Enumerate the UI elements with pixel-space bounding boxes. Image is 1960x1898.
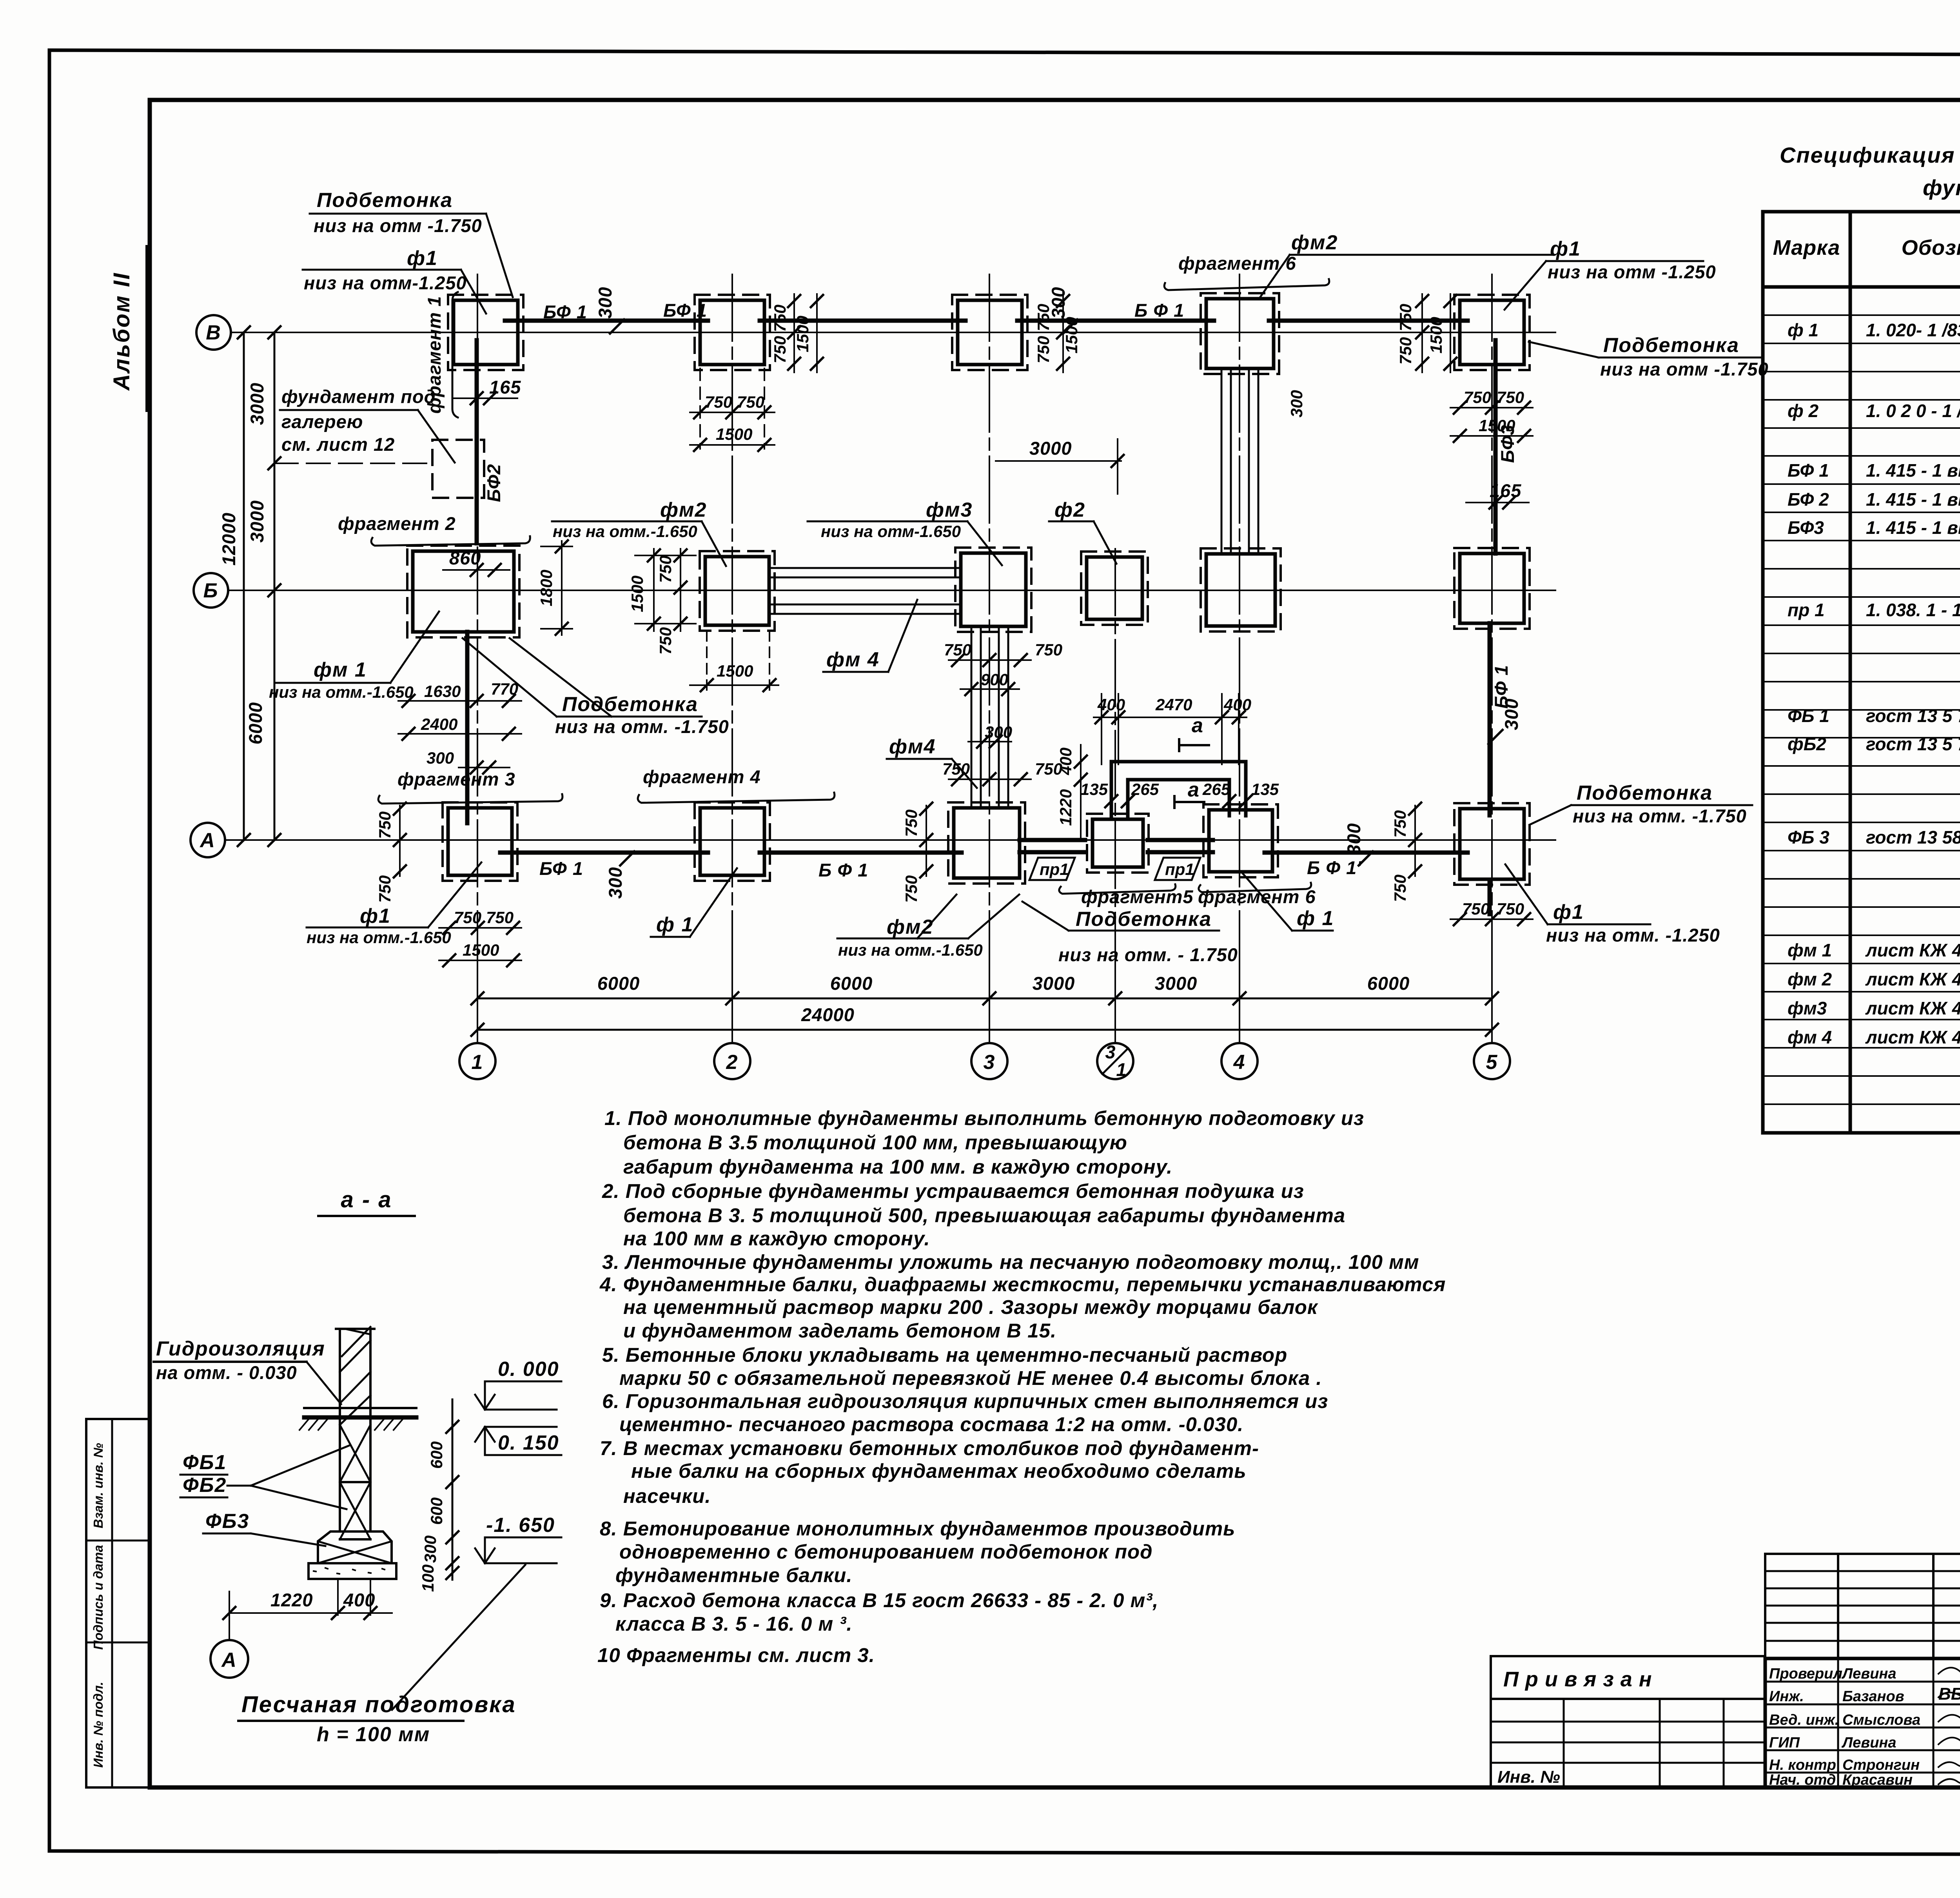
- svg-text:750: 750: [1497, 900, 1524, 918]
- svg-text:пр1: пр1: [1040, 860, 1069, 878]
- svg-text:ф 2: ф 2: [1788, 401, 1818, 421]
- svg-text:750: 750: [1464, 388, 1491, 406]
- fragment 1 bracket and label: [452, 292, 458, 417]
- foundation FM2 axis 4/V: [1201, 293, 1279, 374]
- vertical axis column 3/1: [1114, 549, 1116, 1042]
- dims col3 ladder 750 750 upper: [949, 659, 1031, 661]
- svg-text:Обозначение: Обозначение: [1902, 236, 1960, 259]
- dims row A col1 below: [439, 927, 521, 929]
- svg-text:860: 860: [449, 548, 481, 568]
- svg-text:фм3: фм3: [926, 499, 973, 521]
- svg-text:750: 750: [376, 875, 394, 903]
- svg-text:фм 4: фм 4: [1788, 1027, 1832, 1047]
- dims col2 row V right rotated: [793, 294, 795, 372]
- axis line B horizontal: [228, 590, 1555, 591]
- svg-text:1. 415 - 1 вып. 1: 1. 415 - 1 вып. 1: [1866, 517, 1960, 538]
- dims col2 row V below: [699, 368, 701, 449]
- svg-text:БФ3: БФ3: [1497, 425, 1518, 463]
- svg-text:1500: 1500: [716, 425, 752, 443]
- svg-text:Спецификация сборных и моно: Спецификация сборных и монолитных фундам…: [1780, 143, 1960, 167]
- svg-text:1500: 1500: [793, 316, 812, 352]
- svg-text:400: 400: [343, 1590, 375, 1610]
- svg-text:750: 750: [1396, 304, 1415, 331]
- svg-text:100: 100: [419, 1564, 437, 1592]
- svg-text:5: 5: [1486, 1051, 1498, 1074]
- foundation FM2 axis 2/B: [700, 551, 775, 631]
- svg-text:БФ 1: БФ 1: [1788, 460, 1829, 481]
- foundation FM3 axis 3/B: [955, 548, 1031, 632]
- svg-text:ф 1: ф 1: [1788, 320, 1818, 340]
- dims col5 row V left rotated: [1421, 294, 1423, 372]
- svg-text:насечки.: насечки.: [623, 1485, 711, 1507]
- fragment 5 label: [1059, 884, 1176, 894]
- svg-text:на цементный раствор марки: на цементный раствор марки 200 . Зазоры …: [623, 1296, 1318, 1318]
- section floor slab lines: [304, 1407, 416, 1409]
- svg-text:750: 750: [1396, 337, 1415, 365]
- svg-text:ВБаз: ВБаз: [1938, 1684, 1960, 1704]
- svg-text:6. Горизонтальная гидроизоля: 6. Горизонтальная гидроизоляция кирпичны…: [602, 1390, 1328, 1412]
- svg-text:бетона В 3.5 толщиной 100 мм: бетона В 3.5 толщиной 100 мм, превышающу…: [623, 1131, 1127, 1154]
- svg-text:низ на отм.-1.650: низ на отм.-1.650: [838, 941, 983, 959]
- svg-text:750: 750: [454, 908, 481, 927]
- svg-text:а - а: а - а: [341, 1187, 392, 1212]
- svg-text:ф1: ф1: [1553, 901, 1584, 924]
- svg-text:БФ 1: БФ 1: [543, 301, 587, 322]
- svg-text:В: В: [206, 321, 221, 344]
- svg-text:Песчаная подготовка: Песчаная подготовка: [241, 1692, 516, 1717]
- dim 1500 below col2 row B: [690, 684, 779, 686]
- svg-text:6000: 6000: [245, 702, 266, 745]
- svg-text:Красавин: Красавин: [1842, 1772, 1913, 1788]
- svg-text:фм 4: фм 4: [826, 648, 880, 671]
- svg-text:1500: 1500: [717, 662, 753, 680]
- svg-text:см. лист 12: см. лист 12: [281, 434, 395, 455]
- svg-text:1220: 1220: [1056, 789, 1075, 826]
- vertical axis column 2: [731, 274, 733, 1042]
- dims row A col4-5 rotated 750s: [1414, 806, 1416, 876]
- svg-text:3000: 3000: [247, 383, 267, 425]
- svg-text:Левина: Левина: [1841, 1735, 1896, 1751]
- svg-text:750: 750: [902, 875, 920, 903]
- svg-text:БФ 2: БФ 2: [1788, 489, 1829, 510]
- section wall axis below: [337, 1579, 339, 1615]
- svg-text:Альбом II: Альбом II: [109, 272, 134, 391]
- dims col3 row V right rotated: [1062, 292, 1064, 372]
- svg-text:2470: 2470: [1155, 695, 1192, 714]
- svg-text:ФБ1: ФБ1: [183, 1451, 227, 1474]
- section FB3 slab trapezoid: [318, 1531, 392, 1563]
- svg-text:1800: 1800: [537, 570, 555, 606]
- svg-text:3000: 3000: [1029, 438, 1072, 459]
- svg-text:Нач. отд: Нач. отд: [1769, 1772, 1836, 1788]
- svg-text:Взам. инв. №: Взам. инв. №: [91, 1443, 105, 1528]
- svg-text:ФБ 3: ФБ 3: [1788, 827, 1829, 847]
- svg-text:ГИП: ГИП: [1769, 1735, 1800, 1751]
- section bottom dims 1220 400: [229, 1612, 392, 1614]
- svg-text:Инв. №: Инв. №: [1497, 1767, 1560, 1787]
- dim 1800 rotated: [561, 541, 563, 635]
- svg-text:Б Ф 1: Б Ф 1: [1134, 300, 1184, 321]
- svg-text:гост 13 5 7 9 - 78: гост 13 5 7 9 - 78: [1866, 734, 1960, 754]
- svg-text:2. Под сборные фундаменты: 2. Под сборные фундаменты устраивается б…: [602, 1180, 1304, 1202]
- svg-text:низ на отм-1.250: низ на отм-1.250: [304, 272, 467, 293]
- title block small revision table: [1765, 1554, 1960, 1658]
- svg-text:12000: 12000: [218, 512, 239, 566]
- svg-text:400: 400: [1223, 695, 1251, 714]
- svg-text:пр 1: пр 1: [1788, 600, 1825, 620]
- svg-text:165: 165: [1490, 480, 1521, 501]
- svg-text:750: 750: [486, 908, 514, 927]
- svg-text:3: 3: [984, 1051, 996, 1074]
- svg-text:Стронгин: Стронгин: [1842, 1757, 1920, 1773]
- svg-text:750: 750: [376, 811, 394, 839]
- svg-text:1: 1: [1116, 1059, 1127, 1080]
- section elevation dim line: [419, 1399, 459, 1592]
- svg-text:9. Расход бетона класс: 9. Расход бетона класса В 15 гост 26633 …: [600, 1589, 1158, 1611]
- svg-text:0. 000: 0. 000: [498, 1358, 559, 1381]
- svg-text:750: 750: [771, 336, 789, 363]
- svg-text:Проверил: Проверил: [1769, 1666, 1842, 1682]
- svg-text:Б Ф 1: Б Ф 1: [818, 860, 868, 880]
- svg-text:гост 13 5 7 9 - 78: гост 13 5 7 9 - 78: [1866, 706, 1960, 726]
- section wall with hatching: [336, 1327, 374, 1425]
- bottom dim chain total 24000: [477, 1029, 1492, 1031]
- svg-text:фм3: фм3: [1788, 998, 1827, 1018]
- svg-text:1630: 1630: [424, 682, 461, 700]
- svg-text:750: 750: [1391, 875, 1409, 902]
- svg-text:класса В 3. 5 - 16. 0 м: класса В 3. 5 - 16. 0 м ³.: [615, 1613, 853, 1635]
- svg-text:1. 0 2 0 - 1 / 83. 1 - 1. 2. 0: 1. 0 2 0 - 1 / 83. 1 - 1. 2. 0. 0: [1866, 401, 1960, 421]
- svg-text:Инв. № подл.: Инв. № подл.: [91, 1682, 105, 1767]
- left margin attribute boxes: [86, 1419, 150, 1787]
- monolithic beam FM4 vertical axis 4 V-B: [1221, 368, 1223, 554]
- svg-text:фрагмент 4: фрагмент 4: [643, 766, 761, 787]
- grid circle B: [194, 573, 228, 608]
- svg-text:а: а: [1192, 714, 1204, 737]
- title block left privyazan table: [1491, 1656, 1765, 1787]
- lintel beams PR1 left pair: [1020, 838, 1085, 842]
- svg-text:1. 020- 1 /83. 1 - 1. 2. 0. 0: 1. 020- 1 /83. 1 - 1. 2. 0. 0: [1866, 320, 1960, 340]
- svg-text:300: 300: [605, 867, 626, 898]
- vertical axis column 3: [989, 274, 990, 1042]
- svg-text:ф2: ф2: [1054, 499, 1085, 521]
- svg-text:7. В местах установки бето: 7. В местах установки бетонных столбиков…: [600, 1437, 1259, 1459]
- svg-text:750: 750: [1035, 641, 1062, 659]
- svg-text:низ на отм. - 1.750: низ на отм. - 1.750: [1058, 944, 1238, 965]
- podbetonka outline fragment 5: [1111, 762, 1246, 816]
- svg-text:1. 038. 1 - 1. 1 120 000. 0: 1. 038. 1 - 1. 1 120 000. 02: [1866, 600, 1960, 620]
- svg-text:фундамент под: фундамент под: [281, 386, 436, 407]
- foundation F1 axis 1/A: [443, 802, 517, 881]
- svg-text:лист КЖ 4: лист КЖ 4: [1865, 969, 1960, 989]
- svg-text:фБ2: фБ2: [1788, 734, 1826, 754]
- svg-text:-1. 650: -1. 650: [486, 1514, 555, 1537]
- bottom grid circles 1-5: [459, 1043, 495, 1079]
- svg-text:1. Под монолитные фундаменты: 1. Под монолитные фундаменты выполнить б…: [604, 1107, 1364, 1129]
- foundation F2 axis 3-1/B: [1081, 552, 1148, 625]
- svg-text:ФБ3: ФБ3: [205, 1510, 249, 1533]
- dashed gallery foundation square: [432, 440, 484, 498]
- dims col2 row B left rotated: [653, 549, 655, 631]
- svg-text:1. 415 - 1 вып. 1: 1. 415 - 1 вып. 1: [1866, 460, 1960, 481]
- svg-text:3. Ленточные фундаменты уло: 3. Ленточные фундаменты уложить на песча…: [602, 1251, 1419, 1273]
- beam BF3 axis5 V-B vertical: [1494, 340, 1498, 553]
- beam BF1 axis1 B-A vertical: [465, 632, 470, 823]
- svg-text:Вед. инж.: Вед. инж.: [1769, 1712, 1839, 1728]
- foundation F1 axis 2/V: [695, 295, 770, 370]
- svg-text:300: 300: [595, 287, 615, 318]
- left dim chain 12000: [243, 332, 245, 840]
- svg-text:8. Бетонирование монолитных: 8. Бетонирование монолитных фундаментов …: [600, 1517, 1235, 1540]
- vertical axis column 5: [1491, 274, 1493, 1042]
- svg-text:цементно- песчаного раствор: цементно- песчаного раствора состава 1:2…: [619, 1413, 1243, 1435]
- svg-text:Базанов: Базанов: [1842, 1688, 1904, 1705]
- svg-text:1500: 1500: [463, 941, 499, 959]
- axis line V horizontal: [231, 332, 1555, 333]
- svg-text:2: 2: [726, 1051, 739, 1074]
- svg-text:Смыслова: Смыслова: [1842, 1712, 1920, 1728]
- beam BF1 row A segment 2-3: [760, 851, 962, 855]
- svg-text:750: 750: [1497, 388, 1524, 406]
- svg-text:а: а: [1188, 778, 1200, 801]
- svg-text:БФ 1: БФ 1: [539, 858, 583, 879]
- svg-text:фм 1: фм 1: [314, 659, 367, 681]
- svg-text:ф 1: ф 1: [1297, 907, 1334, 930]
- svg-text:Н. контр: Н. контр: [1769, 1757, 1836, 1773]
- svg-text:6000: 6000: [1367, 973, 1410, 994]
- svg-text:фрагмент5: фрагмент5: [1081, 886, 1194, 907]
- svg-text:БФ 1: БФ 1: [663, 300, 707, 321]
- monolithic beam FM4 vertical axis 3 B-A: [971, 626, 973, 808]
- beam BF1 row A segment 4-5: [1265, 851, 1468, 855]
- svg-text:900: 900: [981, 670, 1008, 689]
- svg-text:0. 150: 0. 150: [498, 1432, 559, 1454]
- beam BF1 row V segment 4-5: [1269, 319, 1468, 323]
- svg-text:БФ2: БФ2: [483, 464, 504, 502]
- svg-text:одновременно с бетонировани: одновременно с бетонированием подбетонок…: [619, 1541, 1153, 1563]
- label box PR1 right: [1155, 858, 1200, 880]
- svg-text:марки 50 с обязательной пе: марки 50 с обязательной перевязкой НЕ ме…: [619, 1367, 1322, 1389]
- svg-text:Инж.: Инж.: [1769, 1688, 1804, 1705]
- foundation F1 axis 1/V: [448, 295, 523, 370]
- beam BF1 row A segment 1-2: [500, 851, 708, 855]
- svg-text:фрагмент 3: фрагмент 3: [397, 769, 515, 789]
- svg-text:пр1: пр1: [1165, 860, 1194, 878]
- svg-text:фм 2: фм 2: [1788, 969, 1832, 989]
- svg-text:Подбетонка: Подбетонка: [562, 693, 698, 716]
- svg-text:Б Ф 1': Б Ф 1': [1307, 857, 1362, 878]
- svg-text:низ на отм -1.750: низ на отм -1.750: [314, 215, 482, 236]
- beam BF1 row V segment 2-3: [760, 319, 965, 323]
- foundation F1 axis 2/A: [695, 802, 770, 881]
- svg-text:Подпись и дата: Подпись и дата: [91, 1545, 105, 1650]
- monolithic beam FM4 horizontal axis B 2-3: [769, 567, 961, 569]
- dims col3 ladder 750 750 lower: [949, 778, 1031, 780]
- svg-text:низ на отм -1.250: низ на отм -1.250: [1548, 261, 1716, 282]
- foundation F1 axis 5/A: [1454, 803, 1530, 885]
- foundation F1 axis 3/V: [952, 295, 1027, 370]
- svg-text:фм2: фм2: [660, 499, 707, 521]
- svg-text:3000: 3000: [1033, 973, 1075, 994]
- svg-text:4: 4: [1233, 1051, 1246, 1074]
- beam BF2 axis1 V-B vertical: [475, 340, 479, 543]
- svg-text:БФ3: БФ3: [1788, 517, 1824, 538]
- foundation F1 axis 5/B: [1454, 548, 1530, 629]
- specification table grid: [1763, 212, 1960, 1133]
- svg-text:габарит фундамента на 100: габарит фундамента на 100 мм. в каждую с…: [623, 1156, 1172, 1178]
- svg-text:2400: 2400: [421, 715, 457, 733]
- svg-text:750: 750: [705, 393, 732, 411]
- foundation F1 axis 5/V: [1454, 295, 1530, 370]
- svg-text:1: 1: [472, 1051, 484, 1074]
- svg-text:300: 300: [1287, 390, 1306, 417]
- svg-text:300: 300: [426, 749, 454, 767]
- dim 400 2470 400 fragment5: [1094, 717, 1247, 718]
- svg-text:400: 400: [1056, 748, 1075, 775]
- section axis circle A: [211, 1640, 248, 1678]
- svg-text:ф1: ф1: [1550, 238, 1581, 260]
- monolithic foundation FM1 axis 1/B: [407, 546, 519, 637]
- grid circle V: [196, 315, 231, 350]
- svg-text:лист КЖ 4: лист КЖ 4: [1865, 940, 1960, 960]
- beam BF1 row V segment 1-2: [505, 319, 708, 323]
- svg-text:4. Фундаментные балки, диафр: 4. Фундаментные балки, диафрагмы жесткос…: [599, 1273, 1446, 1296]
- foundation F1 axis 4/A: [1203, 804, 1278, 877]
- beam BF1 axis5 B-A vertical: [1488, 623, 1492, 815]
- svg-text:265: 265: [1131, 780, 1159, 798]
- svg-text:А: А: [199, 829, 216, 852]
- axis line A horizontal: [225, 839, 1555, 841]
- dims row A col1 left rotated: [399, 806, 401, 876]
- svg-text:низ на отм.-1.650: низ на отм.-1.650: [269, 683, 414, 701]
- svg-text:600: 600: [427, 1441, 446, 1469]
- svg-text:750: 750: [656, 555, 675, 583]
- svg-text:Подбетонка: Подбетонка: [1577, 782, 1713, 804]
- gallery aux axis line: [274, 463, 432, 464]
- title block names grid: [1765, 1658, 1960, 1788]
- svg-text:1500: 1500: [1062, 317, 1081, 353]
- svg-text:на 100 мм в каждую с: на 100 мм в каждую сторону.: [623, 1227, 930, 1250]
- svg-text:750: 750: [1391, 810, 1409, 838]
- dim extension verticals bottom: [477, 966, 478, 1042]
- svg-text:750: 750: [1034, 304, 1053, 331]
- foundation F2 axis 3-1/A: [1087, 814, 1149, 873]
- svg-text:и фундаментом заделать б: и фундаментом заделать бетоном В 15.: [623, 1319, 1056, 1342]
- svg-text:600: 600: [427, 1497, 446, 1525]
- svg-text:ф1: ф1: [407, 247, 438, 270]
- svg-text:750: 750: [1034, 336, 1053, 363]
- svg-text:ФБ 1: ФБ 1: [1788, 706, 1829, 726]
- svg-text:фрагмент 2: фрагмент 2: [338, 513, 456, 534]
- section ground hatch: [299, 1420, 402, 1430]
- grid circle A: [191, 823, 225, 857]
- svg-text:фундаментных балок: фундаментных балок: [1923, 175, 1960, 200]
- svg-text:5. Бетонные блоки укладыва: 5. Бетонные блоки укладывать на цементно…: [602, 1344, 1287, 1366]
- dim 1220 400 rotated fragment5: [1080, 745, 1082, 841]
- dims col5 row V below: [1450, 407, 1533, 408]
- svg-text:h = 100 мм: h = 100 мм: [317, 1723, 430, 1746]
- title block signatures: [1938, 1664, 1960, 1784]
- vertical axis column 4: [1239, 274, 1240, 1042]
- svg-text:135: 135: [1080, 780, 1108, 798]
- svg-text:гост 13 58 0 - 85: гост 13 58 0 - 85: [1866, 827, 1960, 847]
- svg-text:3: 3: [1105, 1042, 1116, 1062]
- svg-text:1220: 1220: [270, 1590, 313, 1610]
- svg-text:1. 415 - 1 вып. 1: 1. 415 - 1 вып. 1: [1866, 489, 1960, 510]
- svg-text:ф 1: ф 1: [656, 913, 693, 936]
- dims row A col3 right rotated: [926, 806, 927, 876]
- svg-text:фм2: фм2: [1291, 231, 1338, 254]
- svg-text:750: 750: [944, 641, 971, 659]
- svg-text:П р и в я з а н: П р и в я з а н: [1503, 1668, 1652, 1691]
- vertical axis column 1: [477, 274, 478, 1042]
- svg-text:Левина: Левина: [1841, 1666, 1896, 1682]
- svg-text:низ на отм. -1.750: низ на отм. -1.750: [555, 716, 729, 737]
- foundation FM2 axis 4/B: [1201, 548, 1281, 631]
- svg-text:Подбетонка: Подбетонка: [1076, 908, 1212, 931]
- beam BF1 row V segment 3-4: [1017, 319, 1214, 323]
- fragment 6 label row A: [1199, 883, 1311, 892]
- svg-text:750: 750: [656, 627, 675, 655]
- svg-text:265: 265: [1202, 780, 1230, 798]
- svg-text:Б: Б: [203, 579, 219, 602]
- left dim chain 3000-3000-6000: [274, 332, 276, 840]
- svg-text:низ на отм. -1.750: низ на отм. -1.750: [1573, 806, 1747, 826]
- dims row A col5 below: [1450, 918, 1533, 920]
- svg-text:лист КЖ 4: лист КЖ 4: [1865, 1027, 1960, 1047]
- foundation FM2 axis 3/A: [948, 802, 1025, 884]
- svg-text:6000: 6000: [830, 973, 873, 994]
- svg-text:750: 750: [771, 305, 789, 332]
- svg-text:низ на отм-1.650: низ на отм-1.650: [821, 522, 961, 541]
- svg-text:фм4: фм4: [889, 735, 936, 758]
- svg-text:Марка: Марка: [1773, 236, 1840, 259]
- svg-text:750: 750: [902, 809, 920, 837]
- svg-text:низ на отм.-1.650: низ на отм.-1.650: [307, 928, 451, 947]
- svg-text:24000: 24000: [801, 1004, 855, 1025]
- svg-text:6000: 6000: [597, 973, 640, 994]
- svg-text:низ на отм. -1.250: низ на отм. -1.250: [1546, 925, 1720, 945]
- section block FB column with X bracing: [340, 1425, 370, 1539]
- bottom dim chain spans: [477, 998, 1492, 1000]
- svg-text:лист КЖ 4: лист КЖ 4: [1865, 998, 1960, 1018]
- svg-text:1500: 1500: [1427, 317, 1445, 353]
- svg-text:3000: 3000: [1155, 973, 1198, 994]
- svg-text:300: 300: [1343, 823, 1364, 855]
- svg-text:фундаментные балки.: фундаментные балки.: [615, 1564, 853, 1586]
- section sand pad: [309, 1563, 396, 1579]
- beam BF1 stub below axis5 A square: [1488, 880, 1492, 914]
- svg-text:Подбетонка: Подбетонка: [317, 189, 453, 212]
- svg-text:галерею: галерею: [281, 411, 363, 432]
- svg-text:750: 750: [1462, 900, 1490, 918]
- svg-text:низ на отм.-1.650: низ на отм.-1.650: [553, 522, 697, 541]
- svg-text:на отм. - 0.030: на отм. - 0.030: [156, 1362, 297, 1383]
- svg-text:135: 135: [1251, 780, 1279, 798]
- svg-text:ные балки на сборных: ные балки на сборных фундаментах необход…: [631, 1460, 1247, 1482]
- svg-text:750: 750: [737, 393, 764, 411]
- svg-text:750: 750: [942, 760, 970, 778]
- svg-text:ФБ2: ФБ2: [183, 1474, 227, 1497]
- svg-text:А: А: [221, 1649, 237, 1671]
- svg-text:фм 1: фм 1: [1788, 940, 1832, 960]
- svg-text:300: 300: [421, 1535, 439, 1563]
- svg-text:низ на отм -1.750: низ на отм -1.750: [1600, 359, 1769, 379]
- svg-text:1500: 1500: [628, 575, 646, 612]
- svg-text:300: 300: [1501, 698, 1522, 730]
- svg-text:бетона В 3. 5 толщиной: бетона В 3. 5 толщиной 500, превышающая …: [623, 1204, 1345, 1227]
- svg-text:10 Фрагменты см. лист 3.: 10 Фрагменты см. лист 3.: [597, 1644, 875, 1666]
